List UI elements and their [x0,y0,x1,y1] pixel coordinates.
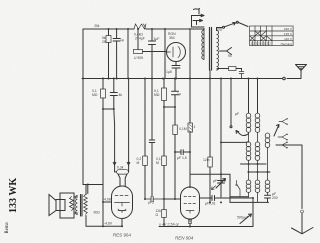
svg-text:µF: µF [213,179,217,183]
svg-text:90: 90 [228,54,232,58]
svg-text:125 V: 125 V [284,32,293,36]
svg-text:50Ω: 50Ω [216,28,223,32]
svg-text:30k: 30k [94,24,100,28]
svg-text:MΩ: MΩ [154,93,160,97]
svg-text:1: 1 [194,125,196,129]
svg-text:200: 200 [272,196,278,200]
svg-text:2: 2 [253,42,255,46]
svg-text:-4,08: -4,08 [103,198,111,202]
svg-text:1: 1 [256,42,258,46]
svg-text:220 V: 220 V [284,27,293,31]
svg-text:Rema: Rema [5,221,10,233]
svg-text:2: 2 [264,42,266,46]
svg-text:U 905: U 905 [134,56,143,60]
svg-text:M: M [156,161,159,165]
svg-text:-4,6V: -4,6V [104,222,113,226]
svg-text:Heizung: Heizung [281,42,293,46]
svg-text:133 WK: 133 WK [8,178,19,213]
svg-text:12m: 12m [203,158,210,162]
svg-text:110 V: 110 V [284,37,293,41]
svg-text:25: 25 [102,40,106,44]
svg-text:90Ω: 90Ω [94,211,101,215]
svg-text:0,3k: 0,3k [117,166,124,170]
svg-text:µF0,01: µF0,01 [205,202,216,206]
svg-text:u 4V 2,5A gr: u 4V 2,5A gr [159,223,180,227]
svg-text:500µµF: 500µµF [237,216,250,220]
svg-text:4k: 4k [119,93,123,97]
svg-text:0,1M: 0,1M [179,127,187,131]
svg-text:1µ5: 1µ5 [166,70,172,74]
svg-text:µF 1,5: µF 1,5 [177,156,187,160]
svg-text:RES 964: RES 964 [113,233,132,238]
svg-text:2: 2 [269,42,271,46]
svg-text:1: 1 [267,42,269,46]
svg-text:1: 1 [250,42,252,46]
svg-text:µF: µF [235,112,239,116]
svg-text:2×4µF: 2×4µF [135,37,145,41]
svg-text:MΩ: MΩ [92,93,98,97]
svg-text:µF5: µF5 [148,201,154,205]
svg-text:1µ: 1µ [120,38,124,42]
svg-text:2: 2 [258,42,260,46]
svg-text:1µF: 1µF [154,37,160,41]
svg-text:REN 904: REN 904 [175,236,194,241]
svg-text:M: M [137,161,140,165]
svg-text:1: 1 [261,42,263,46]
svg-text:354: 354 [169,36,175,40]
svg-text:1µ: 1µ [177,92,181,96]
